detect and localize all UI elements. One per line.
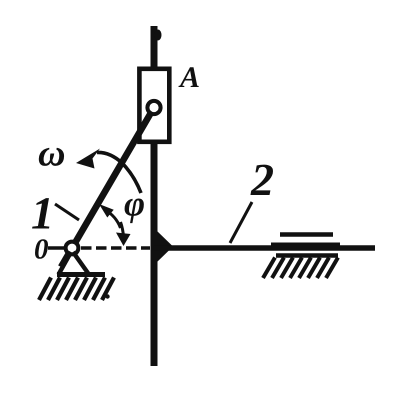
dashed centerline O to rod <box>81 246 150 250</box>
svg-text:φ: φ <box>124 184 145 224</box>
small ink blob on rod top <box>155 30 162 41</box>
angle arc phi with arrows <box>99 204 131 246</box>
node O short line <box>48 246 66 250</box>
junction solid triangle on rod 2 <box>156 230 173 263</box>
pivot O circle <box>66 242 79 255</box>
sliding guide support: thick seat on rod <box>271 243 340 251</box>
svg-text:A: A <box>178 61 200 94</box>
sliding guide support: top plate <box>280 232 333 236</box>
svg-text:0: 0 <box>34 234 49 266</box>
hatch end dot <box>105 294 109 298</box>
ground hatching at O <box>39 278 114 301</box>
omega rotation arrow arc <box>76 149 141 194</box>
svg-text:2: 2 <box>250 154 274 205</box>
leader line for 2 <box>230 202 252 243</box>
slider block A <box>139 69 169 142</box>
svg-text:ω: ω <box>38 133 66 175</box>
crank rod 1 (link O-A) <box>61 108 154 268</box>
svg-text:1: 1 <box>31 188 54 239</box>
horizontal rod 2 <box>154 245 375 251</box>
vertical rod (part of rod 2 tee) <box>151 26 158 366</box>
leader line for 1 <box>55 204 79 220</box>
guide support hatching <box>263 258 338 279</box>
pin joint at A <box>147 101 160 114</box>
sliding guide support: bottom plate <box>276 253 338 257</box>
fixed support triangle at O <box>59 252 90 275</box>
ground line at O <box>57 272 105 277</box>
